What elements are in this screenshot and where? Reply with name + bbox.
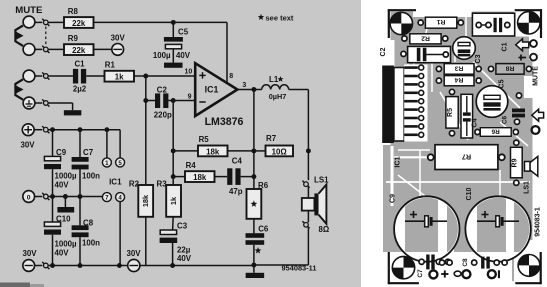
-30V rail right	[140, 265, 254, 267]
svg-text:954083-11: 954083-11	[282, 264, 317, 273]
wire R2 to -30V rail	[145, 217, 147, 266]
svg-text:47p: 47p	[229, 187, 243, 196]
svg-text:30V: 30V	[126, 249, 141, 258]
pcb IC1 heatsink tab	[382, 66, 394, 144]
pcb C8 pads	[439, 260, 444, 265]
capacitor C9 plate+ (open)	[44, 156, 60, 160]
svg-text:10Ω: 10Ω	[272, 147, 287, 156]
capacitor C3 plate+ (open)	[160, 230, 176, 235]
svg-text:40V: 40V	[176, 51, 191, 60]
0V line	[48, 196, 102, 198]
wire R3 to C3	[172, 217, 175, 230]
mounting hole bottom-right	[518, 255, 540, 277]
svg-text:1000µ: 1000µ	[55, 172, 78, 181]
wire sleeve to ground terminal	[35, 102, 42, 104]
svg-text:R4: R4	[186, 161, 197, 170]
IC1 pin 7 circle	[102, 193, 111, 202]
svg-text:30V: 30V	[111, 33, 126, 42]
wire -input node down	[172, 101, 174, 186]
svg-text:0: 0	[27, 194, 31, 201]
pcb pad 0	[454, 271, 461, 276]
sleeve terminal	[42, 99, 49, 106]
svg-text:R7: R7	[462, 152, 471, 161]
svg-text:4: 4	[118, 195, 122, 202]
pcb C8 plates	[481, 257, 484, 269]
junction feedback mid	[251, 148, 256, 153]
svg-text:IC1: IC1	[205, 85, 219, 95]
wire 0V to ground bar	[64, 197, 66, 208]
capacitor C6 plate b	[246, 240, 265, 245]
feedback vertical wire	[253, 90, 255, 190]
svg-text:18k: 18k	[193, 173, 207, 182]
capacitor C4 plate a	[227, 168, 232, 185]
IC1 pin 4 circle	[116, 193, 125, 202]
pcb arrow mid	[532, 109, 544, 121]
junction C7 top	[78, 127, 83, 132]
svg-text:R6: R6	[491, 127, 500, 134]
svg-text:C2: C2	[157, 85, 168, 94]
junction pin1 stub	[104, 127, 109, 132]
resistor R1	[105, 71, 135, 82]
pcb R8 pads	[488, 66, 493, 71]
wire stub to ground bar	[253, 265, 255, 273]
pcb speaker LS1 icon	[525, 162, 531, 172]
pcb IC1 body	[394, 68, 404, 142]
svg-text:R5: R5	[447, 108, 454, 117]
svg-text:3: 3	[242, 82, 246, 89]
wire -30V to terminal pin	[35, 265, 43, 267]
svg-text:R5: R5	[199, 135, 210, 144]
svg-text:R7: R7	[266, 134, 277, 143]
connector J2 sleeve contact	[23, 97, 35, 109]
capacitor C7 plate b	[72, 165, 89, 170]
svg-text:5: 5	[118, 160, 122, 167]
svg-text:22k: 22k	[72, 46, 86, 55]
svg-text:LS1: LS1	[524, 181, 531, 194]
svg-text:R8: R8	[68, 7, 79, 16]
wire terminal to speaker	[307, 187, 309, 199]
mounting hole top-right	[518, 12, 540, 34]
svg-text:1k: 1k	[115, 73, 124, 82]
pcb C7 pads	[419, 259, 424, 264]
wire C7 to 0V line	[79, 169, 81, 196]
speaker top terminal	[302, 181, 309, 188]
svg-text:2µ2: 2µ2	[73, 85, 87, 94]
junction R6 top	[251, 174, 256, 179]
wire tip to S2 terminal	[35, 75, 42, 77]
connector J2 tip contact	[23, 70, 35, 82]
wire S1b to R9	[48, 48, 64, 50]
ground bar under C5	[164, 63, 183, 68]
pcb C6 plates	[512, 109, 525, 113]
pcb pad right mid	[532, 126, 540, 134]
svg-text:8Ω: 8Ω	[319, 225, 330, 234]
svg-text:100µ: 100µ	[153, 51, 171, 60]
terminal -30V left	[23, 260, 35, 272]
connector J1 body	[15, 26, 23, 46]
wire C2 to -input	[168, 100, 194, 102]
wire 0V to terminal	[35, 196, 43, 198]
wire C7 rail to plate	[79, 130, 81, 157]
pcb C10 symbol	[477, 220, 496, 222]
svg-text:18k: 18k	[141, 194, 150, 207]
capacitor C9 plate-	[44, 164, 61, 169]
pcb C7 plates	[426, 255, 429, 270]
junction top rail C5	[171, 20, 176, 25]
wire R1 to op-amp +input	[134, 75, 194, 77]
wire +input node down to C2 node	[145, 76, 147, 185]
svg-text:C6: C6	[258, 224, 269, 233]
terminal -30V mute	[112, 44, 124, 56]
wire C9 to 0V line	[52, 169, 54, 196]
svg-text:30V: 30V	[20, 141, 35, 150]
capacitor C8 plate b	[72, 232, 89, 237]
pcb corner mark bottom-right	[515, 282, 541, 284]
svg-text:220p: 220p	[154, 111, 172, 120]
terminal 0V	[23, 191, 35, 203]
speaker LS1 cone	[319, 185, 327, 224]
svg-text:C3: C3	[475, 54, 482, 63]
wire C9 rail to plate	[52, 130, 54, 157]
junction -input node	[171, 98, 176, 103]
pcb R2 pads	[402, 36, 407, 41]
wire C4 to feedback node	[241, 176, 254, 178]
svg-text:18k: 18k	[206, 147, 220, 156]
junction R5 left	[171, 148, 176, 153]
svg-text:C10: C10	[466, 187, 473, 200]
svg-text:MUTE: MUTE	[533, 66, 540, 86]
op-amp plus input sign	[199, 74, 205, 76]
connector J2 body	[15, 79, 23, 99]
wire rail to C5	[172, 22, 174, 37]
junction C10 bottom	[50, 263, 55, 268]
wire R4 to C4	[215, 176, 228, 178]
pcb IC1 pins and pads	[404, 65, 427, 142]
capacitor C8 plate a	[72, 225, 89, 230]
svg-text:22k: 22k	[72, 19, 86, 28]
star see-text note	[258, 14, 264, 20]
wire R6 to C6	[253, 219, 255, 233]
capacitor C4 plate b	[235, 168, 240, 185]
wire L1 to speaker branch	[289, 89, 309, 91]
pcb C9 copper inside	[405, 196, 460, 252]
svg-text:22µ: 22µ	[177, 245, 191, 254]
svg-text:IC1: IC1	[393, 156, 402, 167]
wire C5 to ground	[172, 49, 174, 63]
capacitor C2 plate b	[163, 93, 168, 108]
svg-text:9: 9	[188, 93, 192, 100]
IC1 pin 1 circle	[102, 158, 111, 167]
pcb trace gaps	[407, 46, 409, 140]
wire terminal to C1	[48, 75, 73, 77]
svg-text:C4: C4	[232, 157, 243, 166]
speaker bottom terminal	[302, 221, 309, 228]
svg-text:30V: 30V	[22, 249, 37, 258]
junction R7 right	[306, 148, 311, 153]
pcb R5 outline	[446, 97, 458, 129]
svg-text:MUTE: MUTE	[15, 5, 43, 16]
svg-text:R9: R9	[512, 158, 519, 167]
svg-text:C1: C1	[74, 60, 85, 69]
pcb pad ground	[462, 270, 470, 278]
capacitor C10 plate-	[44, 230, 61, 235]
capacitor C5 plate- (open)	[165, 44, 181, 48]
svg-text:1000µ: 1000µ	[55, 240, 78, 249]
wire C10 to -30V rail	[52, 235, 54, 266]
wire +30V to terminal	[34, 129, 42, 131]
svg-text:see text: see text	[266, 13, 294, 22]
resistor R5	[198, 146, 228, 157]
junction C6 bottom	[251, 263, 256, 268]
svg-text:0µH7: 0µH7	[269, 92, 287, 101]
pcb corner mark bottom-left	[388, 252, 390, 284]
resistor R3	[166, 185, 181, 217]
wire output	[237, 89, 261, 91]
pcb C4 plates	[463, 112, 471, 115]
pcb C1 link and pads	[481, 24, 492, 26]
svg-text:954083-1: 954083-1	[534, 207, 541, 237]
pcb corner mark top-right	[515, 9, 542, 11]
+30V rail	[48, 129, 120, 131]
wire feedback node to R7	[254, 150, 266, 152]
junction R4 left	[171, 174, 176, 179]
wire stub to pin 1	[106, 130, 108, 158]
capacitor C10 plate+ (open)	[44, 222, 60, 226]
pcb R5 pads	[449, 89, 454, 94]
svg-text:C7: C7	[417, 269, 424, 278]
pcb arrow top	[516, 39, 529, 51]
svg-text:1k: 1k	[169, 196, 178, 205]
pcb C9 capacitor	[394, 196, 459, 261]
-30V rail left	[48, 265, 128, 267]
pcb R2 outline	[410, 34, 441, 44]
wire pin4 down to -30V rail	[119, 202, 121, 266]
junction C3 bottom	[170, 263, 175, 268]
junction C8 top	[78, 194, 83, 199]
resistor R7	[266, 146, 294, 157]
star under C6	[255, 247, 262, 254]
svg-text:R1: R1	[105, 60, 116, 69]
resistor R8	[64, 17, 94, 28]
wire node to C2	[146, 100, 155, 102]
junction C8 bottom	[78, 263, 83, 268]
wire C1 to R1	[86, 75, 104, 77]
ganged switch dashed link	[45, 27, 47, 46]
svg-text:C2: C2	[380, 47, 387, 56]
svg-text:R4: R4	[454, 76, 463, 83]
inductor L1	[262, 85, 289, 90]
terminal -30V mid	[128, 259, 140, 271]
star at L1	[278, 76, 284, 82]
svg-text:C5: C5	[178, 28, 189, 37]
svg-text:7: 7	[105, 195, 109, 202]
capacitor C6 plate a	[246, 233, 265, 238]
svg-text:C7: C7	[83, 148, 94, 157]
svg-text:C8: C8	[462, 258, 469, 267]
wire terminal to ground	[48, 102, 73, 104]
wire C3 to -30V rail	[172, 243, 174, 266]
pcb C2 outline	[408, 46, 451, 62]
pcb R3 pads	[436, 66, 441, 71]
svg-text:R2: R2	[421, 34, 430, 41]
svg-text:C9: C9	[389, 194, 396, 203]
svg-text:1: 1	[105, 160, 109, 167]
pcb copper traces	[391, 12, 533, 282]
pcb C9 symbol	[405, 220, 425, 222]
pcb R6 pads horizontal	[475, 129, 480, 134]
svg-text:R1: R1	[436, 18, 445, 25]
capacitor C1 plate b	[81, 69, 86, 84]
junction C9 top	[50, 127, 55, 132]
wire C6 to bottom rail	[253, 245, 255, 265]
junction pin4 bottom	[117, 263, 122, 268]
wire C10 0V to plate	[52, 197, 54, 223]
resistor R9	[64, 44, 94, 55]
pcb R1 pads	[418, 20, 423, 25]
svg-text:R9: R9	[68, 34, 79, 43]
svg-text:40V: 40V	[55, 249, 70, 258]
terminal +30V	[22, 124, 34, 136]
pcb R7 pads	[428, 154, 434, 160]
pcb C10 copper inside	[477, 196, 531, 252]
capacitor C2 plate a	[155, 93, 160, 108]
svg-text:100n: 100n	[82, 239, 100, 248]
junction C10 top	[50, 194, 55, 199]
wire speaker to bottom terminal	[307, 211, 309, 223]
capacitor C1 plate a	[73, 69, 78, 84]
mounting hole top-left	[390, 12, 412, 34]
junction 0V ground stub	[63, 194, 68, 199]
pcb R3 outline	[444, 64, 474, 75]
capacitor C3 plate-	[160, 238, 178, 243]
0V terminal pin	[42, 193, 49, 200]
pcb C1 plates	[494, 18, 497, 32]
switch S1a terminal	[42, 19, 49, 26]
pcb C4 outline	[461, 94, 473, 138]
pcb C1 outline box	[472, 13, 514, 36]
-30V terminal pin	[42, 262, 49, 269]
scan artifact bottom-left	[0, 283, 30, 287]
svg-text:100n: 100n	[82, 172, 100, 181]
speaker LS1 driver	[302, 198, 315, 211]
svg-text:8: 8	[229, 73, 233, 80]
wire speaker branch to bottom rail	[307, 227, 309, 265]
op-amp minus input sign	[199, 101, 205, 103]
+30V rail terminal pin	[42, 126, 49, 133]
svg-text:R8: R8	[505, 64, 514, 71]
resistor R6	[247, 189, 262, 219]
svg-text:LM3876: LM3876	[205, 116, 244, 128]
svg-text:40V: 40V	[177, 254, 192, 263]
wire tip to S1a	[35, 21, 42, 23]
svg-text:C5: C5	[499, 79, 506, 88]
resistor R4	[185, 171, 215, 182]
svg-text:L1: L1	[269, 75, 279, 84]
wire S1a to R8	[48, 21, 64, 23]
svg-text:C6: C6	[502, 115, 509, 124]
pcb pad out	[488, 270, 496, 278]
pcb R9 pads	[514, 140, 519, 145]
connector J1 tip contact	[23, 16, 35, 28]
junction output node	[251, 87, 256, 92]
svg-text:IC1: IC1	[109, 177, 122, 186]
mounting hole bottom-left	[392, 256, 414, 278]
svg-text:C4: C4	[471, 118, 478, 127]
pcb R9 outline	[511, 147, 523, 178]
svg-text:40V: 40V	[55, 181, 70, 190]
ground bar on 0V line	[57, 207, 74, 213]
schematic background panel	[0, 0, 361, 287]
resistor R2	[138, 185, 153, 217]
wire ring to S1b	[35, 48, 42, 50]
svg-text:C1: C1	[501, 42, 508, 51]
capacitor C7 plate a	[72, 157, 89, 162]
pcb R7 outline	[435, 145, 498, 170]
wire R8 to top rail / pin 8	[94, 21, 228, 23]
pcb R1 outline	[425, 17, 456, 28]
switch S1b terminal	[42, 46, 49, 53]
pcb C3 capacitor	[453, 37, 476, 60]
pcb C2 plates	[417, 48, 421, 61]
pcb pad B+	[429, 270, 437, 278]
svg-text:R3: R3	[454, 64, 463, 71]
wire to R4	[173, 176, 185, 178]
pcb R4 pads	[436, 78, 441, 83]
wire C8 0V to plate	[79, 197, 81, 226]
pcb R4 outline	[444, 76, 474, 86]
ground bar input	[64, 110, 82, 115]
svg-text:10: 10	[185, 69, 193, 76]
capacitor C5 plate+	[164, 37, 183, 42]
pcb C2 pads	[401, 51, 406, 56]
connector J1 ring contact	[23, 44, 35, 56]
input terminal	[42, 72, 49, 79]
junction node +input	[143, 74, 148, 79]
op-amp IC1 triangle	[195, 63, 237, 116]
pcb R6 outline horizontal	[480, 128, 511, 137]
IC1 pin 5 circle	[116, 158, 125, 167]
pcb pads right top	[530, 40, 537, 47]
junction C2 left	[143, 98, 148, 103]
pcb R8 outline	[496, 64, 524, 75]
pcb C5 capacitor	[476, 86, 508, 118]
wire C8 to -30V rail	[79, 237, 81, 265]
svg-text:C3: C3	[177, 222, 188, 231]
pcb C10 capacitor	[465, 196, 530, 261]
wire R9 to -30V terminal	[94, 48, 113, 50]
ground bar under C6	[246, 273, 265, 278]
wire to R5	[173, 150, 198, 152]
wire R5 to feedback node	[228, 150, 254, 152]
wire stub to pin 5	[119, 130, 121, 158]
pcb corner mark top-left	[388, 9, 416, 11]
star in R6	[251, 200, 258, 207]
